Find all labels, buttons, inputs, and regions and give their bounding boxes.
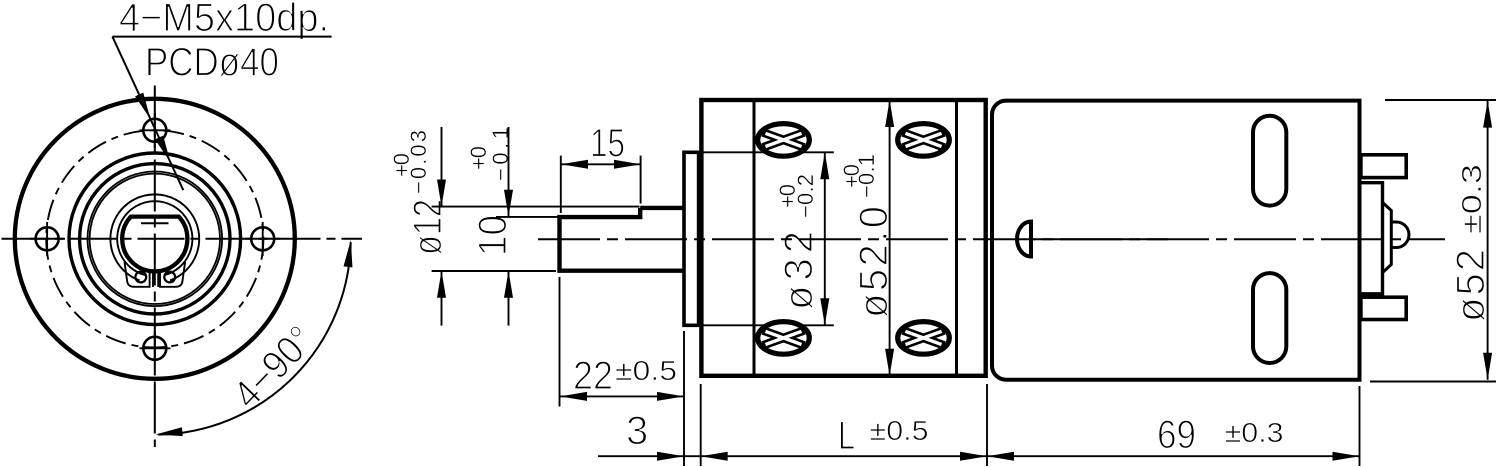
arrows: dim 22 (560, 392, 587, 401)
screw bottom-left (758, 322, 810, 355)
axis solid segment right of datum symbol (1032, 238, 1168, 240)
svg-text:+0: +0 (466, 146, 491, 170)
leader line to hole and gear face (112, 37, 183, 191)
ext motor top right (1385, 99, 1496, 101)
rear bearing housing step (1361, 183, 1383, 294)
arrows: dim 15 (561, 160, 588, 169)
leader underline of label 4-M5x10dp. (112, 36, 331, 38)
front view: motor flange face (left) (2, 37, 363, 447)
dim 10/dia12 ext bottom (432, 270, 556, 272)
svg-text:10: 10 (471, 215, 515, 256)
gearbox housing (701, 100, 985, 376)
ring split right edge (157, 272, 159, 288)
arrows: dim 3 (outside) + L left (657, 452, 684, 461)
svg-text:L: L (838, 414, 855, 458)
output shaft outline (560, 208, 685, 271)
dim 22 line (560, 395, 684, 397)
dim 22 ext left (559, 277, 561, 407)
extension line bottom of collar/dia32 (700, 324, 834, 326)
datum half-round symbol on axis (1017, 222, 1031, 257)
gearbox inner line right (955, 100, 958, 376)
dim 10 ext top (496, 216, 558, 218)
ext motor right face (1359, 386, 1361, 466)
wire: horizontal centerline of front view (2, 238, 363, 240)
dim dia12 line upper (441, 127, 443, 207)
dim dia12 line lower (441, 271, 443, 326)
vent slot top (1253, 116, 1286, 206)
arrows: dim L right / 69 left (960, 452, 987, 461)
mounting hole bottom (143, 337, 166, 360)
wire: vertical centerline of front view (154, 86, 156, 448)
leader arrowhead at gearbox circle (155, 136, 174, 164)
dim text dia32 +0 -0.2 (rotated) (775, 174, 821, 310)
tick through right hole (262, 222, 264, 256)
angular dimension arc 4-90 deg (158, 242, 351, 434)
gearbox front inner circle (80, 164, 230, 314)
flange outer circle (front) (15, 99, 295, 379)
dim 15 ext left (560, 156, 562, 213)
dim 22/3 ext shared (683, 331, 685, 466)
screw top-left (758, 124, 810, 157)
axis segment through right hole (245, 238, 280, 240)
axis segment through top hole (154, 113, 156, 148)
svg-text:3: 3 (626, 409, 648, 453)
dim 15 line (561, 163, 641, 165)
bolt circle PCD 40 (dash-dot) (46, 130, 263, 347)
wire: main axis centerline of side view (538, 238, 1445, 240)
bottom dim line 3/L/69 (598, 455, 1360, 457)
bearing boss circle outer (88, 172, 223, 307)
mounting hole left (36, 227, 59, 250)
front mounting collar (3mm) (684, 152, 699, 325)
vent slot bottom (1253, 273, 1286, 363)
screw bottom-right (898, 322, 950, 355)
mounting hole top (M5) (143, 119, 166, 142)
terminal tab top (1361, 155, 1406, 178)
arrow: dim 69 right (1333, 452, 1360, 461)
screw top-right (898, 124, 950, 157)
arc arrowhead right (points up to centerline) (344, 240, 356, 268)
axis segment through left hole (30, 238, 65, 240)
ext gearbox right face (986, 384, 988, 466)
rear shaft nub (1391, 222, 1409, 248)
motor body (rounded can) (992, 101, 1360, 380)
dim dia12 ext top (432, 206, 640, 208)
bearing boss circle inner (90, 174, 220, 304)
svg-text:PCDø40: PCDø40 (145, 41, 279, 85)
svg-text:ø52: ø52 (1449, 249, 1493, 322)
shaft D-profile circle with flat (122, 217, 187, 272)
side view: gearmotor assembly (538, 100, 1445, 376)
dim dia52.0 line (889, 100, 891, 376)
svg-text:±0.5: ±0.5 (615, 355, 677, 386)
svg-text:+0: +0 (839, 164, 864, 188)
gearbox front outer circle (69, 153, 241, 325)
arrows: dim dia52 right (1483, 101, 1492, 128)
ext motor bottom right (1370, 381, 1496, 383)
dim text dia12 +0 -0.03 (rotated) (389, 130, 450, 255)
dim dia52 right line (1487, 101, 1489, 380)
svg-text:±0.3: ±0.3 (1225, 417, 1284, 448)
arrows: dim dia12 (outside) (437, 180, 446, 207)
svg-text:±0.3: ±0.3 (1456, 164, 1487, 234)
dim 10 line upper (508, 127, 510, 217)
leader arrowhead at flange edge (135, 93, 154, 121)
svg-text:15: 15 (590, 122, 625, 166)
retaining ring outer edge (split at bottom) (110, 194, 199, 280)
ring lobe hole left (135, 272, 146, 283)
retaining ring right lobe (160, 262, 185, 287)
dim 15 ext right (640, 156, 642, 204)
terminal tab bottom (1361, 297, 1406, 319)
arc arrowhead bottom (points left to centerline) (155, 427, 183, 439)
axis segment through bottom hole (154, 331, 156, 366)
gearbox inner line left (753, 100, 756, 376)
dim text 10 +0 -0.1 (rotated) (466, 127, 515, 256)
svg-text:69: 69 (1157, 413, 1196, 457)
svg-text:+0: +0 (389, 153, 414, 177)
dim 10 line lower (508, 271, 510, 326)
extension line top of collar/dia32 (700, 151, 834, 153)
svg-text:4−M5x10dp.: 4−M5x10dp. (119, 0, 329, 40)
ring split left edge (152, 272, 154, 288)
svg-text:22: 22 (573, 354, 613, 398)
arrows: dim dia52.0 (885, 100, 894, 127)
dim text dia52.0 +0 -0.1 (rotated) (839, 154, 896, 318)
retaining ring inner edge (117, 201, 192, 275)
mounting hole right (251, 227, 274, 250)
svg-text:±0.5: ±0.5 (870, 415, 929, 446)
ext gearbox left face (700, 384, 702, 466)
shaft flat inner line (141, 222, 169, 224)
ring lobe hole right (164, 272, 175, 283)
tick through top hole (140, 129, 171, 131)
dim dia32 line (824, 152, 826, 325)
arrows: dim 10 (outside) (504, 190, 513, 217)
arrows: dim dia32 (820, 152, 829, 179)
tick through left hole (46, 222, 48, 256)
retaining ring left lobe (125, 262, 150, 287)
svg-text:+0: +0 (775, 184, 800, 208)
rear boss chamfered (1383, 202, 1392, 272)
tick through bottom hole (140, 347, 171, 349)
svg-text:ø32: ø32 (777, 231, 821, 310)
dim text dia52 +-0.3 (rotated, far right) (1449, 164, 1493, 322)
